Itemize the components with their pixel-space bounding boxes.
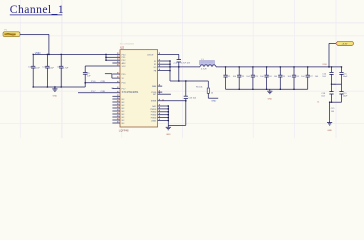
svg-text:ADC: ADC [122, 62, 127, 65]
net label P1.7 [91, 88, 114, 93]
svg-text:GND: GND [166, 134, 171, 136]
svg-text:P1.6: P1.6 [91, 81, 96, 83]
capacitor C5 [83, 66, 91, 84]
svg-text:4.7uF 10V: 4.7uF 10V [181, 62, 191, 64]
capacitor C16 [322, 66, 333, 84]
wire P1.6 row [85, 82, 120, 84]
resistor R5 [196, 81, 218, 98]
svg-text:GND: GND [211, 101, 216, 103]
wire VCC branch [85, 65, 120, 67]
svg-text:4.7uF: 4.7uF [63, 67, 69, 69]
ground symbol under U2 [166, 125, 171, 136]
svg-text:1k: 1k [317, 102, 319, 104]
power port +3.3V [329, 42, 353, 46]
svg-text:DAC: DAC [152, 105, 157, 108]
capacitor C13 [184, 81, 197, 125]
svg-text:MTBE: MTBE [151, 101, 157, 103]
svg-text:104: 104 [331, 111, 334, 113]
capacitor C26 [292, 67, 306, 89]
wire to inductor [170, 66, 200, 67]
wire INT row [158, 93, 171, 95]
svg-text:X1: X1 [154, 61, 156, 63]
svg-text:GND: GND [327, 130, 332, 132]
svg-text:STC15W408S: STC15W408S [122, 90, 139, 94]
wire stub RAM pin [158, 85, 163, 87]
svg-text:Channel_1: Channel_1 [10, 3, 64, 16]
svg-text:P1.6: P1.6 [122, 83, 126, 85]
capacitor C17 [339, 66, 348, 84]
svg-text:P3.0: P3.0 [122, 54, 126, 56]
svg-text:GND: GND [53, 96, 58, 98]
svg-text:R5 10k: R5 10k [196, 87, 202, 89]
svg-text:C13 104: C13 104 [188, 98, 196, 100]
wire CXOUT [158, 53, 179, 55]
capacitor C27 [306, 67, 320, 89]
wire MTBE row [158, 99, 187, 101]
capacitor C8 [57, 54, 69, 87]
capacitor C1a [42, 54, 54, 87]
svg-text:P5.5: P5.5 [122, 74, 126, 76]
svg-text:10uF: 10uF [49, 67, 54, 69]
svg-text:LGND: LGND [151, 120, 157, 122]
svg-text:P1: P1 [5, 30, 7, 32]
capacitor C23 [251, 67, 265, 89]
svg-text:+3.3V: +3.3V [342, 44, 348, 46]
wire crystal jog [105, 74, 120, 78]
ground symbol right bank [267, 89, 272, 100]
svg-text:U2: U2 [120, 46, 124, 50]
wire stub P3.00 pin [158, 91, 163, 93]
wire bottom rail far right [317, 102, 341, 121]
svg-text:P1.7: P1.7 [91, 91, 96, 93]
svg-text:CXOUT: CXOUT [147, 54, 154, 56]
net label VDD [35, 51, 41, 55]
svg-text:VCC: VCC [122, 66, 127, 68]
ic U2 right pin names [147, 54, 157, 122]
svg-text:VDD: VDD [322, 64, 327, 66]
svg-text:STC15W408AS: STC15W408AS [120, 42, 135, 45]
svg-text:5k: 5k [162, 99, 164, 101]
svg-text:X2: X2 [154, 64, 156, 66]
capacitor C10 [28, 54, 40, 87]
wire from port to VDD bus [328, 43, 329, 67]
net label VDD right [322, 64, 327, 66]
svg-text:P3.2: P3.2 [122, 60, 126, 62]
ic U2 right pin numbers [158, 53, 161, 120]
svg-text:RAM: RAM [152, 85, 157, 88]
svg-text:GND: GND [268, 98, 273, 100]
capacitor C22 [237, 67, 251, 89]
svg-text:PGND: PGND [151, 112, 157, 114]
svg-text:4.7uH: 4.7uH [201, 68, 207, 70]
svg-text:PWRD: PWRD [150, 109, 156, 111]
wire ground tie bottom right of U2 [158, 105, 186, 125]
wire from connector P1 to VDD bus [20, 34, 49, 54]
svg-text:C2B: C2B [101, 81, 106, 83]
ic U2 STC15W408AS body [119, 42, 158, 132]
inductor L1 [200, 59, 217, 71]
wire mid rail [170, 71, 208, 82]
net label GND mid [211, 101, 216, 103]
capacitor C25 [278, 67, 292, 89]
capacitor C21 [223, 67, 237, 89]
svg-text:PGND: PGND [151, 118, 157, 120]
ic U2 left pin names [122, 54, 127, 125]
svg-text:10uF: 10uF [343, 76, 348, 78]
ic U2 left pin numbers [116, 53, 119, 123]
svg-text:LQFP48: LQFP48 [119, 129, 129, 133]
svg-text:P1.7: P1.7 [122, 88, 126, 90]
net label P1.6 [91, 81, 105, 83]
wire VDD output bus [216, 66, 342, 68]
wire ground rail right bank [226, 89, 308, 90]
wire mid rail far right [331, 84, 342, 87]
capacitor C18 [321, 84, 333, 102]
svg-text:P3.1: P3.1 [122, 57, 126, 59]
capacitor C4 polarized [173, 54, 191, 81]
svg-text:C3B: C3B [101, 91, 106, 93]
svg-text:PGND: PGND [151, 115, 157, 117]
ground symbol far right [327, 121, 332, 132]
svg-text:104: 104 [333, 84, 336, 86]
sheet title Channel_1 [10, 3, 64, 16]
ic U2 right pin stubs group tied [158, 60, 171, 71]
wire ground rail left [33, 83, 86, 88]
svg-text:C15: C15 [331, 108, 334, 110]
wire P1.7 row [78, 92, 120, 94]
junction dots on VDD bus [33, 54, 62, 55]
ground symbol left bank [52, 87, 57, 98]
svg-text:10uF: 10uF [343, 96, 348, 98]
connector P1 [3, 30, 20, 37]
wire tie to P3.1 P3.2 [105, 54, 120, 61]
capacitor C19 [339, 84, 348, 102]
junction dots right bank top [225, 66, 308, 67]
capacitor C24 [265, 67, 279, 89]
svg-text:10uF: 10uF [35, 67, 40, 69]
ic U2 left pin stubs [112, 63, 120, 123]
wire VDD bus [33, 53, 120, 55]
